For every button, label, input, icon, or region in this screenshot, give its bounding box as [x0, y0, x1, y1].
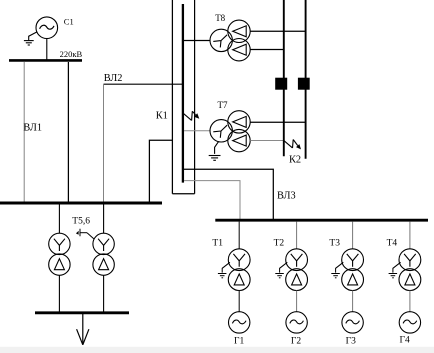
wire T7 lower delta to right bus B1 (grey)	[250, 140, 284, 142]
load arrow	[77, 314, 89, 345]
svg-text:Т4: Т4	[387, 239, 398, 249]
transformer T7	[184, 111, 306, 152]
svg-text:Г2: Г2	[291, 337, 301, 347]
svg-text:К2: К2	[289, 155, 301, 166]
transformer T8	[184, 20, 306, 61]
svg-text:Г1: Г1	[234, 337, 244, 347]
svg-text:К1: К1	[156, 110, 168, 121]
ground (T4)	[389, 262, 401, 278]
wire grey branch to right busbar	[184, 181, 240, 220]
T7 delta winding lower	[228, 129, 250, 151]
svg-text:Т7: Т7	[218, 100, 228, 110]
transformer T2	[286, 222, 308, 312]
T7 delta winding upper	[228, 111, 250, 133]
svg-text:Т2: Т2	[274, 239, 285, 249]
svg-text:Т3: Т3	[329, 239, 340, 249]
right bus line B2	[305, 0, 307, 159]
transformer T3	[342, 222, 364, 312]
right bus line B1	[283, 0, 285, 156]
transformer T6	[93, 205, 114, 312]
wire line 2 from 220kV busbar	[67, 62, 69, 202]
source C1	[36, 17, 58, 39]
node line L3	[194, 0, 196, 194]
breaker square on B2	[298, 78, 310, 90]
wire T8 Y-side	[184, 40, 210, 42]
ground (T1)	[218, 262, 230, 278]
left lower busbar	[0, 202, 162, 205]
wire U-bottom joining L1 and L3	[172, 193, 194, 195]
wire VL1	[23, 62, 25, 202]
wire T7 upper delta to right bus B2	[250, 121, 305, 123]
T8 star winding	[210, 29, 232, 51]
generator G4	[399, 312, 420, 333]
wire VL2 vertical	[103, 84, 105, 202]
ground (T2)	[275, 262, 287, 278]
busbar 220kV	[9, 59, 82, 62]
wire T7 Y-side (grey)	[184, 130, 210, 132]
transformer T5	[49, 205, 70, 312]
transformer T4	[399, 222, 421, 312]
wire VL3	[184, 169, 273, 219]
svg-text:ВЛ2: ВЛ2	[104, 73, 123, 84]
svg-text:220кВ: 220кВ	[60, 49, 83, 59]
generator G1	[229, 312, 250, 333]
node line L1	[171, 0, 173, 194]
fault K2	[284, 140, 297, 148]
lower busbar (T5,6 secondary)	[35, 311, 129, 314]
ground (T3)	[331, 262, 343, 278]
generator G3	[342, 312, 363, 333]
ground (T7 neutral)	[209, 141, 221, 160]
node line L2 (thick)	[182, 4, 184, 183]
svg-text:Г4: Г4	[400, 336, 410, 346]
wire T8 lower delta to right bus B1	[250, 49, 284, 51]
wire branch from L1 to left busbar	[149, 140, 172, 202]
svg-text:ВЛ1: ВЛ1	[23, 122, 42, 133]
T8 delta winding lower	[228, 39, 250, 61]
svg-text:С1: С1	[64, 17, 74, 27]
T7 star winding	[210, 120, 232, 142]
ground (C1)	[24, 32, 37, 45]
wire VL2 horizontal	[104, 83, 184, 85]
svg-text:ВЛ3: ВЛ3	[277, 191, 296, 202]
generator G2	[286, 312, 307, 333]
svg-text:Т8: Т8	[215, 13, 225, 23]
wire C1 to busbar	[46, 39, 48, 61]
breaker square on B1	[275, 78, 287, 90]
svg-text:Т1: Т1	[212, 239, 223, 249]
fault K1	[183, 111, 195, 120]
tap-changer arrow at T6	[80, 229, 94, 240]
transformer T1	[228, 222, 250, 312]
right busbar	[215, 219, 428, 222]
T8 delta winding upper	[228, 20, 250, 42]
svg-text:Т5,6: Т5,6	[72, 217, 90, 227]
wire T8 upper delta to right bus B2	[250, 30, 305, 32]
svg-text:Г3: Г3	[346, 337, 356, 347]
